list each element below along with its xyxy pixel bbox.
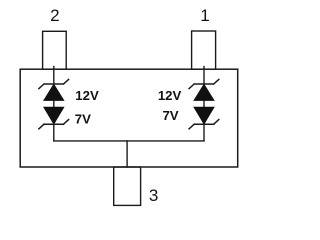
pin 2 terminal [43,31,67,69]
wire pin1 lead [203,67,205,85]
body outline [20,69,238,167]
svg-text:12V: 12V [158,88,182,103]
wire D3-D4 junction right [203,100,205,107]
pin 3 terminal [114,167,141,205]
wire right stack to common [203,124,205,141]
zener diode D3 12V right-top [189,79,219,100]
svg-text:1: 1 [200,6,209,25]
zener diode D1 12V left-top [39,79,69,100]
wire pin2 lead [53,67,55,85]
wire left stack to common [53,124,55,141]
svg-text:7V: 7V [162,108,178,123]
svg-text:12V: 12V [75,88,99,103]
pin 1 terminal [192,31,216,69]
svg-text:3: 3 [149,186,158,205]
svg-text:7V: 7V [75,112,91,127]
wire common to pin3 [126,141,128,167]
zener diode D4 7V right-bottom [189,107,219,129]
svg-text:2: 2 [50,6,59,25]
wire D1-D2 junction left [53,100,55,107]
zener diode D2 7V left-bottom [39,107,69,129]
wire common node [54,140,204,142]
